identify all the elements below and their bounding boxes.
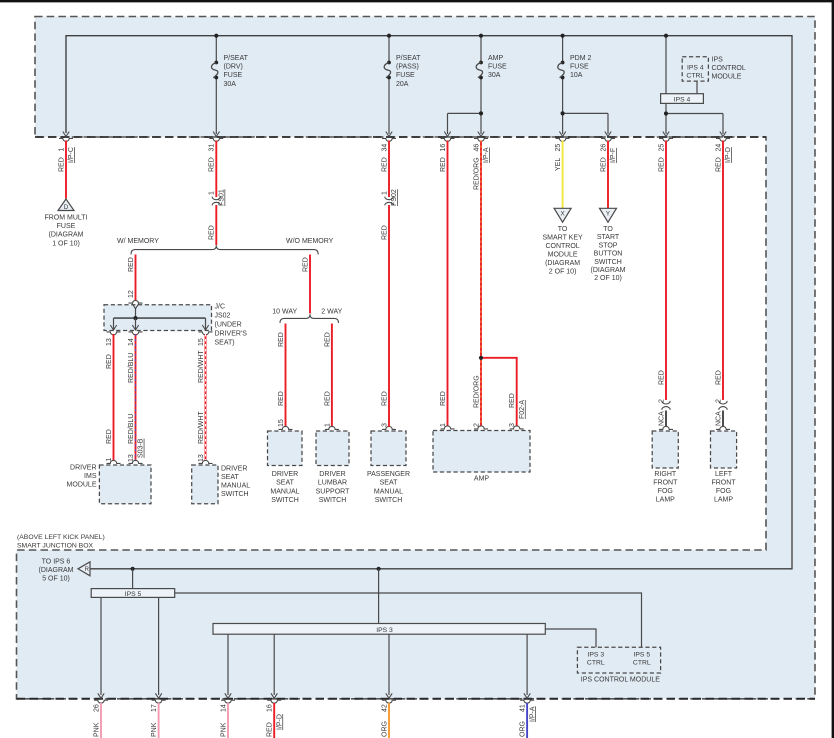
svg-text:RED: RED [58, 157, 65, 172]
svg-text:CONTROL: CONTROL [545, 243, 579, 250]
svg-text:(DIAGRAM: (DIAGRAM [39, 567, 74, 574]
svg-text:I/P-C: I/P-C [68, 147, 75, 163]
svg-text:IPS 3: IPS 3 [376, 627, 393, 634]
svg-text:(DIAGRAM: (DIAGRAM [545, 260, 580, 267]
svg-text:41: 41 [520, 704, 527, 712]
svg-text:IPS: IPS [712, 57, 724, 64]
svg-text:2 OF 10): 2 OF 10) [594, 275, 622, 282]
svg-text:42: 42 [381, 704, 388, 712]
svg-text:10A: 10A [570, 72, 583, 79]
svg-text:FROM MULTI: FROM MULTI [44, 215, 87, 222]
svg-text:X: X [561, 210, 565, 217]
svg-text:RIGHT: RIGHT [654, 471, 677, 478]
svg-text:RED: RED [128, 257, 135, 272]
svg-text:ORG: ORG [520, 721, 527, 737]
svg-text:IMS: IMS [84, 473, 97, 480]
svg-text:RED: RED [381, 225, 388, 240]
svg-text:CTRL: CTRL [587, 660, 605, 667]
svg-text:TO: TO [603, 226, 613, 233]
svg-text:FRONT: FRONT [653, 479, 678, 486]
svg-text:1: 1 [209, 191, 216, 195]
svg-text:12: 12 [128, 290, 135, 298]
svg-text:MANUAL: MANUAL [270, 488, 299, 495]
svg-text:F02-A: F02-A [519, 400, 526, 419]
svg-text:(DIAGRAM: (DIAGRAM [49, 232, 84, 239]
svg-text:RED: RED [509, 393, 516, 408]
svg-text:YEL: YEL [555, 158, 562, 171]
svg-text:FS02: FS02 [391, 189, 398, 206]
svg-text:PDM 2: PDM 2 [570, 55, 592, 62]
svg-text:IPS 4: IPS 4 [687, 64, 704, 71]
svg-text:FUSE: FUSE [488, 64, 507, 71]
svg-text:PNK: PNK [93, 722, 100, 737]
svg-text:SEAT): SEAT) [215, 340, 235, 347]
svg-text:3: 3 [381, 423, 388, 427]
svg-text:2 WAY: 2 WAY [321, 308, 342, 315]
svg-text:ORG: ORG [381, 721, 388, 737]
svg-text:MANUAL: MANUAL [374, 488, 403, 495]
svg-text:2 OF 10): 2 OF 10) [549, 269, 577, 276]
svg-text:RED: RED [324, 332, 331, 347]
svg-text:I/P-F: I/P-F [610, 148, 617, 163]
svg-text:TO IPS 6: TO IPS 6 [42, 559, 71, 566]
svg-text:PNK: PNK [151, 722, 158, 737]
svg-text:STOP: STOP [599, 242, 618, 249]
svg-text:SMART KEY: SMART KEY [542, 235, 583, 242]
svg-text:FUSE: FUSE [570, 64, 589, 71]
svg-text:(DRV): (DRV) [224, 64, 243, 71]
svg-text:RED: RED [106, 354, 113, 369]
svg-text:26: 26 [600, 144, 607, 152]
svg-text:RED: RED [715, 157, 722, 172]
svg-text:I/P-A: I/P-A [529, 706, 536, 722]
svg-text:IPS CONTROL MODULE: IPS CONTROL MODULE [581, 677, 660, 684]
svg-text:SWITCH: SWITCH [375, 497, 403, 504]
svg-text:14: 14 [220, 704, 227, 712]
svg-text:FUSE: FUSE [224, 72, 243, 79]
svg-text:SWITCH: SWITCH [221, 491, 249, 498]
svg-text:24: 24 [715, 144, 722, 152]
svg-text:RED: RED [209, 225, 216, 240]
svg-text:FOG: FOG [658, 488, 673, 495]
svg-text:W/ MEMORY: W/ MEMORY [117, 238, 159, 245]
svg-text:SMART JUNCTION BOX: SMART JUNCTION BOX [17, 542, 93, 549]
svg-text:RED: RED [658, 370, 665, 385]
svg-text:(PASS): (PASS) [396, 64, 419, 71]
svg-text:20A: 20A [396, 81, 409, 88]
svg-text:RED/BLU: RED/BLU [128, 353, 135, 383]
svg-text:RED: RED [106, 429, 113, 444]
svg-text:34: 34 [381, 144, 388, 152]
svg-text:PNK: PNK [220, 722, 227, 737]
svg-text:1: 1 [381, 191, 388, 195]
svg-text:I/P-D: I/P-D [276, 714, 283, 730]
svg-text:MODULE: MODULE [712, 74, 742, 81]
svg-text:DRIVER: DRIVER [70, 465, 96, 472]
svg-text:26: 26 [93, 704, 100, 712]
svg-text:DRIVER: DRIVER [319, 471, 345, 478]
svg-text:AMP: AMP [474, 476, 490, 483]
svg-text:5 OF 10): 5 OF 10) [42, 576, 70, 583]
svg-text:MODULE: MODULE [548, 252, 578, 259]
svg-text:P/SEAT: P/SEAT [224, 55, 249, 62]
svg-text:2: 2 [658, 399, 665, 403]
svg-text:P/SEAT: P/SEAT [396, 55, 421, 62]
svg-text:RED: RED [600, 157, 607, 172]
svg-text:31: 31 [209, 144, 216, 152]
svg-text:I/P-A: I/P-A [483, 147, 490, 163]
svg-text:BUTTON: BUTTON [594, 251, 623, 258]
svg-text:RED: RED [440, 391, 447, 406]
svg-text:RED/WHT: RED/WHT [198, 411, 205, 444]
svg-text:SEAT: SEAT [380, 480, 398, 487]
svg-text:SEAT: SEAT [221, 474, 239, 481]
svg-text:FOG: FOG [716, 488, 731, 495]
svg-text:30A: 30A [488, 72, 501, 79]
svg-text:16: 16 [267, 704, 274, 712]
svg-text:RED: RED [381, 391, 388, 406]
svg-text:25: 25 [555, 144, 562, 152]
svg-text:MODULE: MODULE [67, 481, 97, 488]
svg-text:D: D [64, 204, 69, 211]
svg-text:SEAT: SEAT [276, 480, 294, 487]
svg-text:CTRL: CTRL [686, 72, 704, 79]
svg-text:16: 16 [440, 144, 447, 152]
svg-text:SUPPORT: SUPPORT [316, 488, 350, 495]
svg-text:FUSE: FUSE [57, 223, 76, 230]
svg-text:46: 46 [473, 144, 480, 152]
svg-text:LAMP: LAMP [714, 497, 733, 504]
svg-text:LEFT: LEFT [715, 471, 733, 478]
svg-text:IPS 3: IPS 3 [587, 652, 604, 659]
svg-text:JS02: JS02 [215, 313, 231, 320]
svg-text:15: 15 [198, 338, 205, 346]
svg-text:NCA: NCA [658, 411, 665, 426]
svg-text:10 WAY: 10 WAY [272, 308, 297, 315]
svg-text:RED/ORG: RED/ORG [473, 157, 480, 190]
svg-text:SWITCH: SWITCH [594, 259, 622, 266]
svg-text:SWITCH: SWITCH [319, 497, 347, 504]
svg-text:PASSENGER: PASSENGER [367, 471, 410, 478]
svg-text:RED/BLU: RED/BLU [128, 414, 135, 444]
svg-text:RED: RED [440, 157, 447, 172]
svg-text:S03-B: S03-B [138, 438, 145, 458]
svg-text:17: 17 [151, 704, 158, 712]
svg-text:FRONT: FRONT [711, 479, 736, 486]
svg-text:Y: Y [606, 210, 610, 217]
svg-text:CTRL: CTRL [633, 660, 651, 667]
svg-text:RED: RED [381, 157, 388, 172]
svg-text:RED: RED [324, 391, 331, 406]
svg-text:(DIAGRAM: (DIAGRAM [591, 267, 626, 274]
svg-text:(UNDER: (UNDER [215, 322, 242, 329]
svg-text:FS01: FS01 [219, 189, 226, 206]
svg-text:SWITCH: SWITCH [271, 497, 299, 504]
svg-text:RED/ORG: RED/ORG [473, 375, 480, 408]
svg-text:CONTROL: CONTROL [712, 65, 746, 72]
svg-text:RED: RED [715, 370, 722, 385]
svg-text:30A: 30A [224, 81, 237, 88]
svg-text:RED: RED [278, 332, 285, 347]
svg-text:RED: RED [658, 157, 665, 172]
svg-text:R: R [85, 567, 90, 573]
svg-text:NCA: NCA [715, 411, 722, 426]
svg-text:AMP: AMP [488, 55, 504, 62]
svg-text:START: START [597, 234, 620, 241]
svg-text:1: 1 [58, 148, 65, 152]
svg-text:FUSE: FUSE [396, 72, 415, 79]
svg-text:RED: RED [267, 722, 274, 737]
svg-text:W/O MEMORY: W/O MEMORY [286, 238, 334, 245]
svg-text:DRIVER'S: DRIVER'S [215, 331, 248, 338]
svg-text:14: 14 [128, 338, 135, 346]
svg-text:TO: TO [558, 226, 568, 233]
svg-text:LUMBAR: LUMBAR [318, 480, 347, 487]
svg-text:RED/WHT: RED/WHT [198, 350, 205, 383]
svg-text:MANUAL: MANUAL [221, 483, 250, 490]
svg-text:25: 25 [658, 144, 665, 152]
svg-text:2: 2 [715, 399, 722, 403]
svg-text:DRIVER: DRIVER [272, 471, 298, 478]
svg-text:15: 15 [278, 419, 285, 427]
svg-text:J/C: J/C [215, 304, 226, 311]
svg-text:13: 13 [106, 338, 113, 346]
svg-text:1 OF 10): 1 OF 10) [52, 240, 80, 247]
svg-text:RED: RED [278, 391, 285, 406]
svg-text:(ABOVE LEFT KICK PANEL): (ABOVE LEFT KICK PANEL) [17, 534, 105, 541]
svg-text:I/P-D: I/P-D [725, 147, 732, 163]
svg-text:IPS 4: IPS 4 [674, 96, 691, 103]
svg-text:IPS 5: IPS 5 [633, 652, 650, 659]
svg-text:RED: RED [209, 157, 216, 172]
svg-text:LAMP: LAMP [656, 497, 675, 504]
svg-text:IPS 5: IPS 5 [125, 591, 142, 598]
svg-text:RED: RED [302, 257, 309, 272]
svg-text:DRIVER: DRIVER [221, 466, 247, 473]
